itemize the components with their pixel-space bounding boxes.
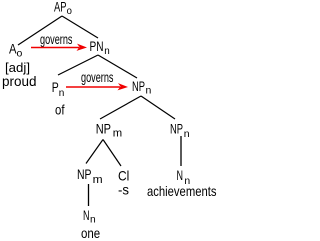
svg-text:n: n: [146, 85, 152, 97]
svg-text:n: n: [184, 128, 190, 140]
node AP_o (root): [54, 0, 72, 17]
svg-text:-s: -s: [118, 182, 129, 198]
svg-text:P: P: [52, 79, 59, 95]
svg-text:o: o: [17, 48, 23, 60]
node N_n (left): [83, 207, 96, 226]
svg-text:NP: NP: [96, 120, 111, 136]
wire NPm-Cl (right branch of NP_m down to Cl): [103, 140, 121, 167]
svg-text:NP: NP: [170, 121, 183, 137]
node A_o: [9, 41, 23, 60]
wire NPright-N (vertical line down to N_n right): [180, 136, 182, 166]
node NP_m (inner): [77, 166, 103, 186]
svg-text:N: N: [83, 207, 90, 223]
node PN_n: [90, 38, 110, 57]
svg-text:n: n: [104, 45, 110, 57]
wire PN-NP (right branch from PN_n down to NP_n mid): [98, 55, 137, 78]
svg-text:governs: governs: [81, 69, 114, 85]
wire PN-P (left branch from PN_n down to P_n): [58, 55, 98, 75]
svg-text:PN: PN: [90, 38, 104, 54]
svg-text:achievements: achievements: [147, 183, 217, 199]
node P_n: [52, 79, 65, 99]
svg-text:NP: NP: [77, 166, 92, 182]
node NP_n (right): [170, 121, 190, 141]
wire NPmid-NPright (right branch down to NP_n right): [141, 96, 175, 119]
arrow governs P_n to NP_n (red): [66, 83, 128, 90]
svg-text:N: N: [177, 167, 184, 183]
svg-text:n: n: [59, 87, 65, 99]
svg-text:o: o: [67, 5, 72, 17]
arrow governs A_o to PN_n (red): [31, 44, 87, 51]
node N_n (right): [177, 167, 191, 187]
svg-text:of: of: [55, 102, 65, 118]
wire AP-A (left branch from AP_o down to A_o): [18, 16, 62, 45]
svg-text:NP: NP: [132, 78, 145, 94]
svg-text:m: m: [113, 128, 122, 140]
svg-text:m: m: [93, 174, 103, 186]
wire AP-PN (right branch from AP_o down to PN_n): [62, 16, 98, 38]
wire NPm-NPm2 (left branch of NP_m down to inner NP_m): [86, 140, 103, 164]
wire NPmid-NPm (left branch down to NP_m): [100, 96, 141, 119]
svg-text:AP: AP: [54, 0, 67, 15]
svg-text:governs: governs: [40, 31, 73, 47]
svg-text:proud: proud: [2, 73, 37, 89]
svg-text:one: one: [81, 225, 100, 241]
node NP_n (middle): [132, 78, 152, 97]
node NP_m (upper): [96, 120, 123, 139]
svg-text:n: n: [90, 214, 96, 226]
wire NPm2-N (vertical line down to N_n left): [88, 184, 90, 206]
